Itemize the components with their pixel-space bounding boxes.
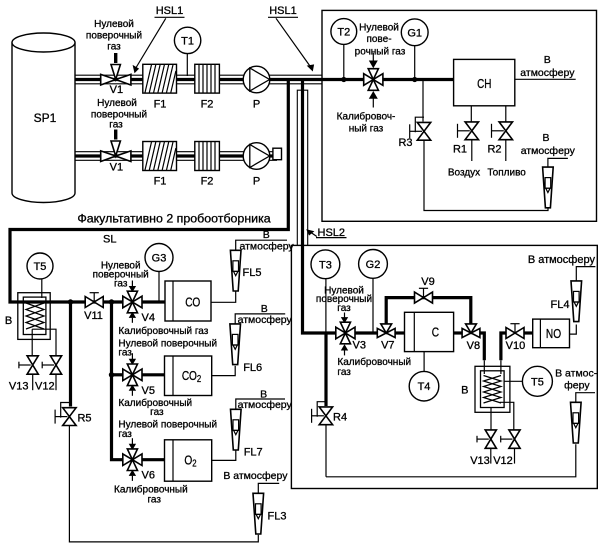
svg-text:FL6: FL6: [243, 362, 262, 374]
label zero gas (V6): [118, 420, 217, 440]
svg-text:F2: F2: [201, 176, 214, 188]
valve R3: [398, 117, 430, 149]
label HSL2 with leader arrow: [306, 227, 346, 239]
svg-text:В: В: [263, 229, 270, 241]
svg-text:Нулевой: Нулевой: [97, 98, 137, 109]
svg-text:V13: V13: [9, 381, 29, 393]
wire: V5 to CO2 analyzer: [142, 373, 165, 376]
wire: tap to V5: [112, 373, 124, 376]
wire: R5 to FL3 rotameter: [69, 426, 258, 542]
svg-text:V11: V11: [84, 310, 103, 322]
wire: drop 1 to optional-samplers header and SL line to CO analyzer: [10, 80, 288, 303]
svg-text:СО: СО: [185, 295, 200, 309]
svg-text:газ: газ: [107, 42, 121, 53]
wire: cooler up to V10: [500, 360, 502, 374]
filter F2 (line 1): [195, 64, 220, 110]
rotameter (NO drain vent): [571, 402, 582, 443]
label to atmosphere (FL5): [240, 229, 295, 252]
svg-text:газ: газ: [114, 278, 128, 289]
svg-text:V8: V8: [467, 340, 480, 352]
valve V1 (line 2): [101, 141, 131, 174]
svg-text:R2: R2: [487, 144, 501, 156]
node: V5 feed tap: [109, 372, 114, 377]
wire: FL5 vent: [236, 240, 287, 250]
node: T2 tap: [341, 77, 346, 82]
wire: cooler drain to V13: [490, 408, 492, 430]
svg-text:G3: G3: [152, 253, 167, 265]
svg-text:R4: R4: [333, 411, 347, 423]
svg-text:В атмосферу: В атмосферу: [528, 254, 596, 266]
rotameter FL3 (bypass vent): [253, 493, 286, 534]
calibration gas arrow into V4: [129, 312, 136, 323]
wire: R4 bypass branch: [324, 333, 327, 406]
svg-text:V1: V1: [110, 162, 123, 174]
svg-text:рочный газ: рочный газ: [355, 47, 406, 58]
thermometer T4: [409, 352, 439, 401]
svg-text:пове-: пове-: [366, 34, 391, 45]
svg-text:T4: T4: [418, 381, 431, 393]
valve V11: [84, 293, 103, 322]
svg-text:HSL1: HSL1: [156, 5, 184, 17]
wire: rotameter vent: [548, 158, 568, 167]
wire: R4 to drain header: [325, 426, 327, 477]
wire: CH air feed: [470, 106, 472, 122]
svg-text:Нулевой поверочный: Нулевой поверочный: [118, 338, 217, 349]
analyzer NO: [533, 319, 570, 348]
svg-text:V12: V12: [35, 381, 55, 393]
wire: V3 to V7: [355, 331, 378, 334]
thermometer T3: [311, 250, 340, 333]
wire: FL6 vent: [235, 314, 285, 324]
wire: sample line 1 heated jacket top: [75, 74, 322, 76]
label to atmosphere (FL7): [238, 388, 293, 411]
label zero gas (CH): [355, 22, 406, 57]
svg-text:газ: газ: [118, 348, 132, 359]
svg-text:HSL1: HSL1: [269, 5, 297, 17]
rotameter FL5: [230, 250, 261, 291]
analyzer CH: [454, 59, 515, 105]
svg-text:T5: T5: [531, 376, 544, 388]
node: G1 tap: [412, 77, 417, 82]
wire: drain header to vent rotameter: [326, 444, 576, 477]
valve V7 (3-way): [377, 324, 395, 351]
svg-text:T2: T2: [337, 27, 350, 39]
svg-text:Воздух: Воздух: [448, 168, 480, 179]
label zero gas (line 2): [91, 98, 147, 131]
cylinder SP1: [12, 33, 75, 203]
node: bypass tap: [68, 299, 73, 304]
wire: FL4 vent: [576, 267, 595, 281]
wire: jacket of HSL2 drop: [297, 90, 307, 245]
enclosure: NO analyzer cabinet HSL2: [291, 245, 597, 488]
svg-text:FL5: FL5: [243, 267, 262, 279]
valve R1: [453, 122, 479, 156]
label zero gas (V3): [316, 285, 372, 314]
calibration gas arrow into V6: [129, 470, 136, 481]
analyzer O2: [165, 440, 212, 481]
svg-text:SL: SL: [103, 234, 116, 246]
thermometer T5 (NO cooler): [504, 366, 552, 396]
label to atmosphere (CH bypass): [521, 132, 576, 157]
wire: sample line 1 core: [29, 78, 454, 81]
label HSL1 (left) with leader arrow: [133, 5, 185, 73]
svg-text:R5: R5: [77, 412, 91, 424]
wire: sample line 2 heated jacket top: [75, 151, 277, 153]
svg-text:V10: V10: [506, 340, 526, 352]
wire: V8 down into cooler: [480, 333, 484, 360]
svg-text:T3: T3: [319, 259, 332, 271]
analyzer CO2: [165, 356, 212, 396]
valve V1 (line 1): [101, 65, 131, 96]
svg-text:В атмос-: В атмос-: [555, 368, 598, 380]
svg-text:В: В: [542, 132, 549, 144]
rotameter FL4: [551, 281, 582, 322]
gauge G3: [145, 244, 173, 302]
svg-text:FL7: FL7: [244, 447, 263, 459]
svg-text:V1: V1: [110, 84, 123, 96]
zero gas arrow into valve: [369, 53, 378, 69]
wire: V6 to O2 analyzer: [142, 458, 165, 461]
wire: R3 to rotameter: [424, 141, 548, 211]
valve V13 (cooler drain): [9, 356, 38, 393]
svg-text:поверочный: поверочный: [86, 31, 142, 42]
wire: C to V8: [454, 331, 463, 334]
svg-text:FL4: FL4: [551, 299, 570, 311]
label to atmosphere (CH exhaust): [520, 54, 575, 79]
wire: CH fuel feed: [505, 106, 507, 122]
svg-text:атмосферу: атмосферу: [238, 399, 293, 411]
svg-text:V4: V4: [142, 312, 155, 324]
label calibration gas (V3): [337, 356, 411, 378]
svg-text:Нулевой: Нулевой: [359, 22, 399, 33]
valve R2: [487, 122, 512, 156]
calibration gas arrow into V5: [129, 385, 136, 396]
svg-text:Топливо: Топливо: [487, 168, 526, 179]
rotameter FL6: [230, 324, 262, 374]
svg-text:газ: газ: [118, 429, 132, 440]
zero gas arrow into V4: [129, 281, 136, 293]
calibration gas arrow into V3: [341, 344, 348, 355]
svg-text:G2: G2: [366, 259, 381, 271]
rotameter (CH bypass vent): [543, 167, 554, 208]
valve R4: [312, 402, 347, 425]
svg-text:R3: R3: [398, 137, 412, 149]
pump P (line 2): [243, 143, 270, 188]
label zero gas (line 1): [86, 19, 142, 53]
wire: sample line 1 heated jacket bottom: [75, 83, 322, 85]
valve V9 (bypass): [415, 276, 435, 303]
svg-text:V6: V6: [142, 470, 155, 482]
thermometer T5 (sample cooler): [27, 253, 53, 298]
thermometer T2: [331, 19, 357, 80]
svg-text:атмосферу: атмосферу: [240, 240, 295, 252]
wire: span bypass branch down from pipe: [422, 81, 424, 122]
svg-text:СН: СН: [477, 78, 491, 92]
svg-text:газ: газ: [109, 120, 123, 131]
valve V5 (4-way, CO2): [123, 364, 155, 397]
wire: cooler drain branch to V12: [32, 329, 56, 356]
zero gas inlet arrow (line 1): [114, 53, 117, 63]
valve V4 (4-way, CO): [123, 291, 155, 324]
svg-text:V13: V13: [470, 455, 490, 467]
wire: NO exhaust to FL4: [570, 325, 577, 335]
label zero gas (V5): [118, 338, 217, 358]
svg-text:V12: V12: [493, 455, 513, 467]
label HSL1 (right) with leader arrow: [268, 5, 314, 72]
valve V6 (4-way, O2): [123, 449, 155, 482]
svg-text:V3: V3: [353, 339, 366, 351]
wire: bypass down to R5: [69, 302, 72, 407]
cooler B (NO line): [461, 366, 510, 412]
wire: CH exhaust to atmosphere: [515, 78, 576, 80]
label zero gas (V4): [93, 261, 149, 290]
wire: V10 to NO analyzer: [524, 331, 533, 334]
wire: cooler drain to V13: [31, 329, 33, 356]
wire: O2 exhaust to FL7: [212, 450, 236, 460]
svg-text:Факультативно 2 пробоотборника: Факультативно 2 пробоотборника: [77, 212, 270, 226]
valve V3 (4-way, NO line): [336, 322, 366, 351]
wire: branch down to V5/V6: [112, 302, 123, 460]
svg-text:газ: газ: [337, 367, 351, 378]
svg-text:Нулевой поверочный: Нулевой поверочный: [118, 420, 217, 431]
svg-text:Калибровочный газ: Калибровочный газ: [118, 325, 208, 337]
svg-text:газ: газ: [150, 407, 164, 418]
wire: V7 to converter C: [395, 331, 405, 334]
svg-text:G1: G1: [407, 27, 422, 39]
svg-text:SP1: SP1: [34, 111, 57, 125]
analyzer CO: [165, 281, 211, 321]
svg-text:NO: NO: [546, 327, 561, 341]
zero gas inlet arrow (line 2): [114, 130, 117, 140]
svg-text:В атмосферу: В атмосферу: [223, 470, 288, 482]
svg-text:T5: T5: [34, 261, 47, 273]
label calibration gas (CH): [337, 111, 396, 135]
wire: vent rotameter to atmosphere: [576, 393, 595, 403]
terminal plug of optional line 2: [273, 148, 282, 160]
4-way calibration valve (CH line): [364, 69, 383, 91]
svg-text:Нулевой: Нулевой: [94, 19, 134, 30]
enclosure: CH analyzer cabinet: [322, 10, 597, 221]
svg-text:F2: F2: [201, 99, 214, 111]
wire: FL3 vent: [258, 483, 279, 493]
label calibration gas (V5): [118, 397, 192, 418]
cooler B (sample line): [5, 293, 50, 340]
wire: converter bypass over C: [386, 298, 471, 325]
node: analyzers branch tap: [109, 299, 114, 304]
wire: sample line 2 core: [29, 154, 278, 157]
zero gas arrow into V3: [341, 313, 348, 324]
valve V8 (3-way): [462, 324, 480, 352]
valve V12 (NO cooler drain): [493, 430, 520, 467]
thermometer T1: [174, 27, 200, 76]
svg-text:FL3: FL3: [268, 511, 287, 523]
valve R5 (bypass flow): [55, 403, 91, 426]
rotameter FL7: [231, 409, 263, 458]
svg-text:R1: R1: [453, 144, 467, 156]
valve V13 (NO cooler drain): [470, 430, 496, 467]
svg-text:С: С: [432, 325, 439, 339]
svg-text:феру: феру: [564, 380, 590, 392]
wire: air inlet stub: [471, 140, 473, 161]
svg-text:V5: V5: [142, 385, 155, 397]
svg-text:P: P: [253, 176, 260, 188]
svg-text:F1: F1: [154, 176, 167, 188]
pump P (line 1): [243, 66, 270, 110]
label calibration gas (V6): [114, 484, 188, 506]
svg-text:атмосферу: атмосферу: [238, 314, 293, 326]
valve V10: [506, 324, 526, 352]
label to atmosphere (FL6): [238, 303, 293, 326]
zero gas arrow into V5: [129, 353, 136, 365]
wire: fuel inlet stub: [505, 140, 507, 161]
svg-text:F1: F1: [154, 99, 167, 111]
wire: CO exhaust to FL5: [211, 291, 236, 302]
zero gas arrow into V6: [129, 438, 136, 450]
label to atmosphere (vent rotameter): [555, 368, 598, 392]
svg-text:ный газ: ный газ: [349, 124, 384, 135]
filter F2 (line 2): [195, 142, 220, 188]
svg-text:B: B: [5, 315, 12, 327]
gauge G2: [359, 250, 388, 334]
svg-text:T1: T1: [181, 35, 194, 47]
wire: FL7 vent: [236, 399, 285, 409]
wire: sample line 2 heated jacket bottom: [75, 159, 277, 161]
converter C: [405, 312, 454, 351]
wire: drop 2 (HSL2) down to V3: [303, 80, 336, 334]
svg-text:атмосферу: атмосферу: [521, 145, 576, 157]
wire: cooler drain branch to V12: [500, 402, 514, 430]
svg-text:атмосферу: атмосферу: [520, 67, 575, 79]
svg-text:Калибровоч-: Калибровоч-: [337, 111, 396, 123]
svg-text:V7: V7: [381, 339, 394, 351]
filter F1 (line 2): [143, 142, 177, 188]
svg-text:B: B: [461, 385, 468, 397]
valve V12 (cooler drain): [35, 356, 62, 393]
svg-text:В: В: [544, 54, 551, 66]
filter F1 (line 1): [143, 64, 177, 110]
svg-text:газ: газ: [147, 495, 161, 506]
wire: CO2 exhaust to FL6: [212, 366, 236, 376]
gauge G1: [401, 19, 428, 80]
svg-text:V9: V9: [421, 276, 434, 288]
calibration gas arrow into valve: [369, 91, 378, 108]
svg-text:газ: газ: [337, 303, 351, 314]
svg-text:P: P: [253, 99, 260, 111]
